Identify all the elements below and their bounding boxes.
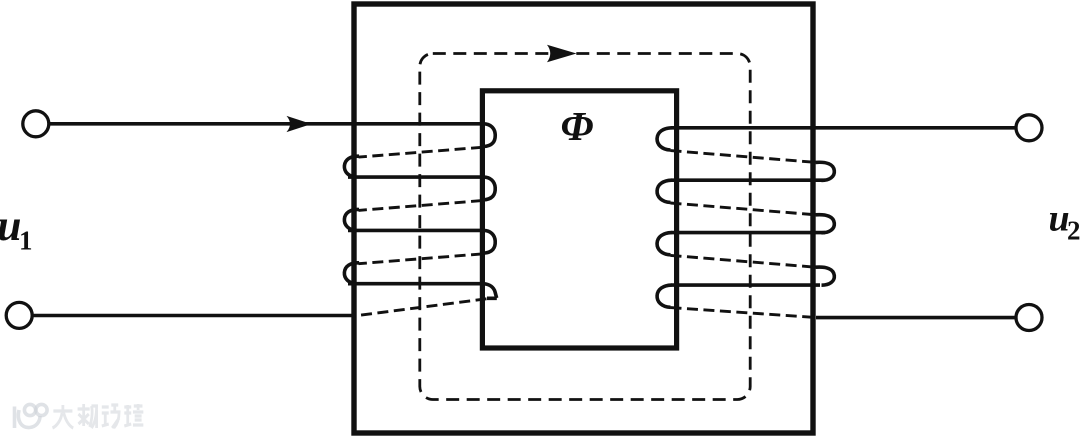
primary winding turn 4 (348, 282, 484, 286)
secondary bottom wire (816, 316, 1016, 320)
primary winding turn 1 (with top wire) (50, 122, 485, 126)
secondary top terminal (1016, 115, 1042, 141)
core outer boundary (354, 4, 813, 433)
primary bottom wire (33, 314, 356, 318)
primary winding turn 2 (348, 175, 484, 179)
secondary winding turn 1 (with top wire) (671, 126, 1016, 130)
secondary winding turn 4 (671, 283, 820, 287)
core window (inner boundary) (482, 91, 676, 348)
secondary bottom terminal (1016, 305, 1042, 331)
primary bottom terminal (6, 302, 32, 328)
secondary winding turn 2 (671, 178, 825, 182)
svg-text:Φ: Φ (561, 103, 594, 149)
current arrow (287, 116, 312, 132)
watermark logo (15, 404, 48, 428)
secondary winding turn 3 (671, 231, 825, 235)
flux path (dashed loop) (420, 54, 750, 400)
watermark text (stylised CJK strokes) (53, 404, 144, 428)
svg-text:2: 2 (1067, 216, 1080, 246)
primary winding turn 3 (348, 229, 484, 233)
svg-text:1: 1 (19, 226, 33, 256)
primary top terminal (23, 111, 49, 137)
flux direction arrow (547, 45, 577, 62)
